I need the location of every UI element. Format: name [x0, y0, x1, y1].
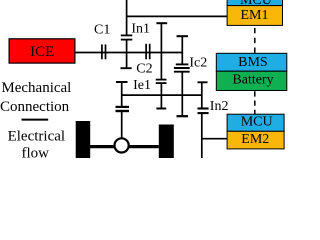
clutch C1: [102, 44, 106, 59]
legend text Mechanical Connection: [0, 80, 71, 115]
svg-text:EM1: EM1: [241, 8, 269, 23]
dashed electrical line Battery-MCU2: [254, 90, 256, 114]
EM2 box: [227, 131, 284, 149]
gear mesh In1: [121, 0, 133, 68]
wire L4 EM2 shaft: [202, 138, 228, 140]
svg-text:C1: C1: [94, 23, 110, 38]
svg-text:Mechanical: Mechanical: [1, 80, 71, 96]
svg-text:C2: C2: [136, 61, 152, 76]
svg-text:In1: In1: [131, 22, 150, 37]
wire L1 EM1 shaft: [127, 15, 228, 17]
legend text Electrical flow: [8, 129, 65, 162]
BMS box: [216, 53, 286, 71]
right wheel: [159, 125, 174, 159]
shaft S3 with gear mesh Ic2: [174, 36, 190, 116]
differential circle: [115, 138, 129, 152]
svg-text:ICE: ICE: [30, 44, 54, 60]
svg-text:Connection: Connection: [0, 99, 70, 115]
legend solid line symbol: [22, 119, 49, 121]
svg-text:BMS: BMS: [238, 55, 268, 70]
clutch C2: [146, 44, 150, 60]
dashed electrical line EM1-BMS: [254, 26, 256, 55]
svg-text:Electrical: Electrical: [8, 129, 65, 145]
svg-text:In2: In2: [210, 99, 229, 114]
svg-text:flow: flow: [22, 146, 50, 159]
shaft S2 gear: [156, 23, 168, 108]
svg-text:EM2: EM2: [241, 132, 269, 147]
Battery box: [216, 71, 286, 90]
left wheel: [76, 121, 91, 158]
svg-text:Battery: Battery: [232, 73, 273, 88]
svg-text:Ie1: Ie1: [133, 78, 151, 93]
ICE box: [9, 39, 75, 63]
wire L3 lower shaft: [122, 94, 202, 96]
shaft Ie1 gear to differential: [116, 82, 130, 139]
svg-text:MCU: MCU: [241, 114, 273, 129]
EM1 box: [227, 6, 282, 26]
MCU2 box: [227, 114, 284, 131]
MCU1 box: [227, 0, 282, 8]
shaft S4 with gear mesh In2: [198, 82, 209, 158]
svg-text:Ic2: Ic2: [189, 56, 207, 71]
wire L2 main shaft from ICE: [75, 52, 182, 54]
axle: [90, 145, 159, 148]
